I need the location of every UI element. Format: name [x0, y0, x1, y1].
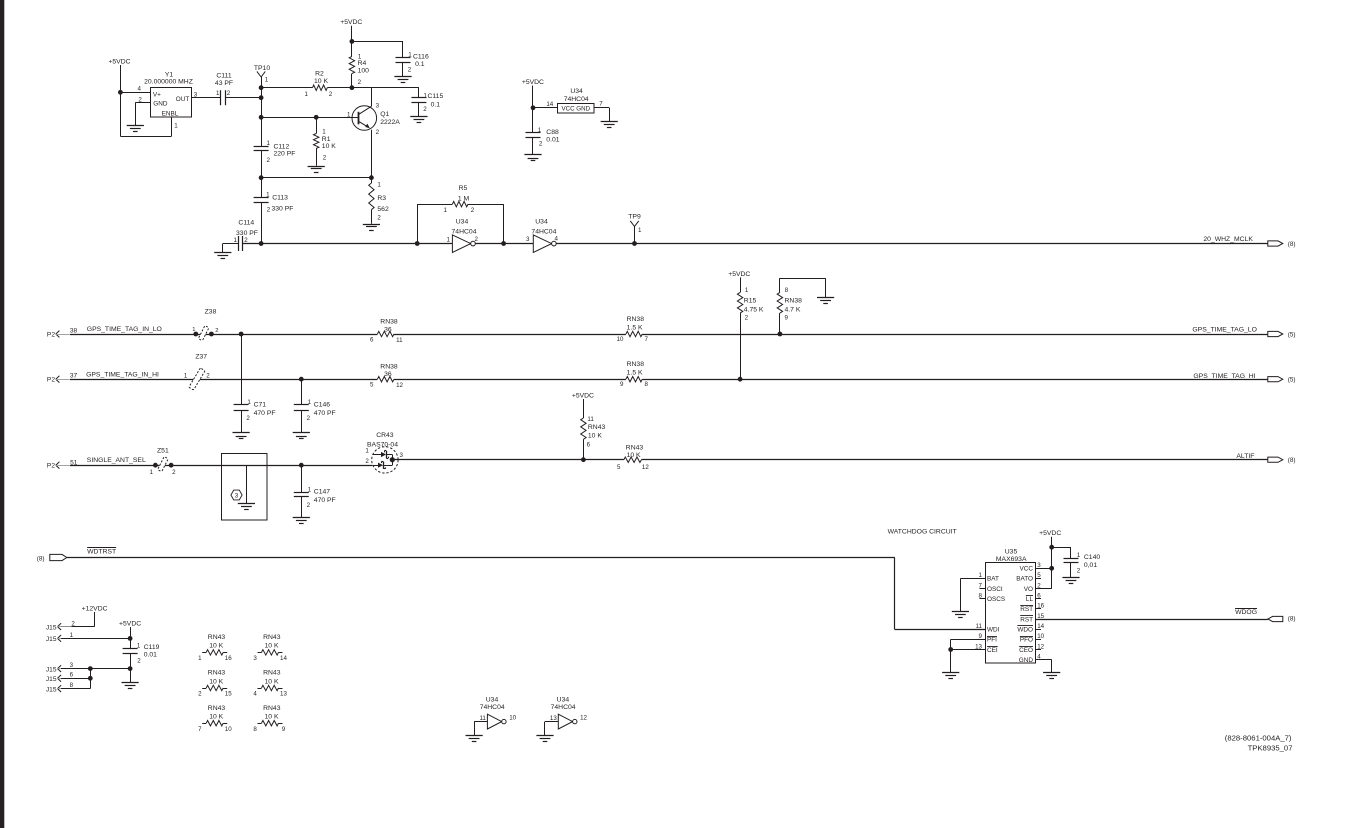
- svg-text:74HC04: 74HC04: [480, 704, 505, 711]
- svg-text:C146: C146: [314, 402, 330, 409]
- svg-text:220 PF: 220 PF: [274, 150, 296, 157]
- svg-text:ALTIF: ALTIF: [1236, 453, 1254, 460]
- svg-text:2: 2: [198, 691, 202, 698]
- svg-text:1: 1: [1077, 552, 1081, 559]
- svg-text:1: 1: [377, 182, 381, 189]
- svg-text:36: 36: [384, 371, 392, 378]
- svg-text:PFO: PFO: [1020, 637, 1033, 644]
- svg-text:C140: C140: [1084, 554, 1100, 561]
- svg-text:U34: U34: [535, 219, 548, 226]
- svg-text:3: 3: [235, 492, 239, 499]
- svg-text:+5VDC: +5VDC: [728, 271, 750, 278]
- svg-text:1: 1: [308, 487, 312, 494]
- svg-text:TP10: TP10: [254, 65, 270, 72]
- svg-text:WDOG: WDOG: [1235, 609, 1257, 616]
- svg-text:9: 9: [785, 315, 789, 322]
- svg-text:1: 1: [234, 237, 238, 244]
- svg-text:P2: P2: [47, 332, 55, 339]
- svg-text:2: 2: [267, 157, 271, 164]
- svg-text:1.5 K: 1.5 K: [627, 325, 643, 332]
- svg-text:OSCI: OSCI: [987, 586, 1003, 593]
- svg-text:2: 2: [307, 415, 311, 422]
- svg-text:13: 13: [550, 715, 557, 722]
- svg-text:14: 14: [546, 101, 553, 108]
- svg-text:10 K: 10 K: [265, 678, 279, 685]
- svg-text:1: 1: [745, 287, 749, 294]
- svg-text:RN38: RN38: [380, 319, 398, 326]
- svg-text:J15: J15: [46, 676, 57, 683]
- svg-text:U34: U34: [486, 696, 499, 703]
- svg-text:(5): (5): [1288, 377, 1296, 384]
- svg-text:2: 2: [377, 215, 381, 222]
- svg-text:C115: C115: [428, 93, 444, 100]
- svg-text:6: 6: [587, 441, 591, 448]
- svg-text:1: 1: [198, 655, 202, 662]
- svg-text:74HC04: 74HC04: [452, 229, 477, 236]
- svg-text:VCC GND: VCC GND: [562, 106, 591, 113]
- svg-text:10 K: 10 K: [265, 643, 279, 650]
- svg-text:15: 15: [1037, 613, 1044, 620]
- svg-text:2: 2: [365, 458, 369, 465]
- svg-text:10: 10: [617, 336, 624, 343]
- svg-text:RN43: RN43: [588, 424, 606, 431]
- svg-text:2: 2: [745, 315, 749, 322]
- svg-text:470 PF: 470 PF: [254, 410, 276, 417]
- svg-text:10 K: 10 K: [588, 433, 602, 440]
- svg-text:SINGLE_ANT_SEL: SINGLE_ANT_SEL: [87, 457, 146, 464]
- svg-text:0.01: 0.01: [546, 137, 559, 144]
- svg-text:R3: R3: [377, 195, 386, 202]
- svg-text:R5: R5: [459, 185, 468, 192]
- svg-text:470 PF: 470 PF: [314, 410, 336, 417]
- svg-text:74HC04: 74HC04: [531, 229, 556, 236]
- svg-text:Y1: Y1: [165, 72, 174, 79]
- svg-text:1: 1: [308, 399, 312, 406]
- svg-text:CR43: CR43: [376, 432, 394, 439]
- svg-text:0.1: 0.1: [415, 61, 425, 68]
- svg-text:12: 12: [642, 464, 649, 471]
- svg-text:20.000000 MHZ: 20.000000 MHZ: [144, 79, 193, 86]
- svg-text:1: 1: [538, 127, 542, 134]
- svg-text:LL: LL: [1026, 596, 1034, 603]
- svg-text:12: 12: [580, 715, 587, 722]
- svg-text:11: 11: [396, 337, 403, 344]
- svg-text:1: 1: [149, 469, 153, 476]
- svg-text:1: 1: [347, 111, 351, 118]
- svg-text:74HC04: 74HC04: [551, 704, 576, 711]
- svg-text:1: 1: [638, 227, 642, 234]
- svg-text:7: 7: [198, 726, 202, 733]
- svg-text:36: 36: [384, 326, 392, 333]
- svg-text:10 K: 10 K: [627, 452, 641, 459]
- svg-text:43 PF: 43 PF: [215, 80, 233, 87]
- svg-text:2: 2: [423, 106, 427, 113]
- svg-text:2: 2: [1077, 568, 1081, 575]
- svg-text:+5VDC: +5VDC: [572, 393, 594, 400]
- svg-text:P2: P2: [47, 463, 55, 470]
- svg-text:2: 2: [307, 502, 311, 509]
- svg-text:3: 3: [253, 655, 257, 662]
- svg-text:Z38: Z38: [205, 308, 217, 315]
- svg-text:3: 3: [400, 452, 404, 459]
- svg-text:RN38: RN38: [627, 316, 645, 323]
- svg-text:1: 1: [184, 373, 188, 380]
- svg-text:+5VDC: +5VDC: [522, 79, 544, 86]
- svg-text:1: 1: [137, 643, 141, 650]
- svg-text:C88: C88: [546, 129, 559, 136]
- svg-text:470 PF: 470 PF: [314, 497, 336, 504]
- svg-text:R15: R15: [744, 297, 757, 304]
- svg-text:8: 8: [785, 287, 789, 294]
- svg-text:PFI: PFI: [987, 637, 997, 644]
- svg-text:RN43: RN43: [208, 705, 226, 712]
- svg-text:C147: C147: [314, 489, 330, 496]
- svg-text:74HC04: 74HC04: [564, 96, 589, 103]
- svg-text:38: 38: [70, 328, 78, 335]
- svg-text:BAS70-04: BAS70-04: [367, 441, 398, 448]
- svg-text:GPS_TIME_TAG_IN_HI: GPS_TIME_TAG_IN_HI: [86, 371, 159, 378]
- svg-text:0.1: 0.1: [431, 102, 441, 109]
- svg-text:6: 6: [70, 672, 74, 679]
- svg-text:2: 2: [408, 66, 412, 73]
- svg-text:4.75 K: 4.75 K: [744, 307, 764, 314]
- svg-text:10: 10: [225, 726, 232, 733]
- svg-text:TPK8935_07: TPK8935_07: [1248, 743, 1293, 752]
- svg-text:13: 13: [280, 691, 287, 698]
- svg-text:J15: J15: [46, 624, 57, 631]
- svg-text:+5VDC: +5VDC: [108, 59, 130, 66]
- svg-text:10 K: 10 K: [314, 78, 328, 85]
- svg-text:+12VDC: +12VDC: [82, 606, 108, 613]
- svg-text:8: 8: [645, 381, 649, 388]
- svg-text:10 K: 10 K: [322, 143, 336, 150]
- svg-text:J15: J15: [46, 666, 57, 673]
- svg-text:U34: U34: [456, 219, 469, 226]
- svg-text:U34: U34: [570, 88, 583, 95]
- svg-text:GPS_TIME_TAG_LO: GPS_TIME_TAG_LO: [1192, 327, 1256, 334]
- svg-text:GPS_TIME_TAG_IN_LO: GPS_TIME_TAG_IN_LO: [87, 326, 162, 333]
- svg-text:(5): (5): [1288, 332, 1296, 339]
- svg-text:2: 2: [475, 236, 479, 243]
- svg-text:C119: C119: [144, 644, 160, 651]
- svg-text:BATO: BATO: [1016, 576, 1033, 583]
- svg-text:U35: U35: [1005, 549, 1018, 556]
- svg-text:C111: C111: [216, 73, 231, 80]
- svg-text:14: 14: [280, 655, 287, 662]
- svg-text:RN43: RN43: [626, 444, 644, 451]
- svg-text:9: 9: [620, 381, 624, 388]
- svg-text:2: 2: [215, 328, 218, 334]
- svg-text:2: 2: [172, 469, 176, 476]
- svg-text:10 K: 10 K: [265, 714, 279, 721]
- svg-text:1: 1: [70, 632, 74, 639]
- svg-text:U34: U34: [557, 696, 570, 703]
- svg-text:RN43: RN43: [263, 705, 281, 712]
- svg-text:8: 8: [70, 682, 74, 689]
- svg-text:RN38: RN38: [627, 361, 645, 368]
- svg-text:1: 1: [267, 140, 271, 147]
- svg-text:1: 1: [174, 123, 178, 130]
- svg-text:1: 1: [305, 91, 309, 98]
- svg-text:2: 2: [267, 207, 271, 214]
- svg-text:15: 15: [225, 691, 232, 698]
- svg-text:GND: GND: [153, 101, 168, 108]
- svg-text:R2: R2: [315, 71, 324, 78]
- svg-text:330 PF: 330 PF: [236, 230, 258, 237]
- svg-text:2: 2: [471, 207, 475, 214]
- svg-text:R1: R1: [322, 136, 331, 143]
- svg-text:(8): (8): [1288, 241, 1296, 248]
- svg-text:RN43: RN43: [263, 634, 281, 641]
- svg-text:1: 1: [365, 448, 369, 455]
- svg-text:R4: R4: [358, 60, 367, 67]
- svg-text:2: 2: [71, 620, 75, 627]
- svg-text:20_WHZ_MCLK: 20_WHZ_MCLK: [1203, 236, 1253, 243]
- svg-text:10 K: 10 K: [209, 714, 223, 721]
- svg-text:2: 2: [539, 140, 543, 147]
- svg-text:RN43: RN43: [208, 634, 226, 641]
- svg-text:1: 1: [266, 191, 270, 198]
- svg-text:2: 2: [323, 154, 327, 161]
- svg-text:1: 1: [216, 90, 220, 97]
- svg-text:J15: J15: [46, 636, 57, 643]
- svg-text:RN38: RN38: [380, 364, 398, 371]
- svg-text:(8): (8): [1288, 457, 1296, 464]
- svg-text:VO: VO: [1024, 586, 1033, 593]
- svg-text:3: 3: [526, 236, 530, 243]
- svg-text:4: 4: [555, 235, 559, 242]
- svg-text:0.01: 0.01: [144, 652, 157, 659]
- svg-text:6: 6: [370, 336, 374, 343]
- svg-text:ENBL: ENBL: [162, 111, 179, 118]
- svg-text:1 M: 1 M: [458, 195, 470, 202]
- svg-text:(8): (8): [1288, 616, 1296, 623]
- svg-text:RN43: RN43: [263, 670, 281, 677]
- svg-text:16: 16: [225, 655, 232, 662]
- svg-text:2: 2: [358, 79, 362, 86]
- svg-text:OSCS: OSCS: [987, 596, 1005, 603]
- svg-text:562: 562: [377, 206, 389, 213]
- svg-text:10 K: 10 K: [209, 643, 223, 650]
- svg-text:14: 14: [1037, 623, 1044, 630]
- svg-text:Z37: Z37: [195, 354, 207, 361]
- svg-text:5: 5: [617, 464, 621, 471]
- svg-text:RN43: RN43: [208, 670, 226, 677]
- svg-text:RST: RST: [1020, 616, 1033, 623]
- svg-text:V+: V+: [153, 91, 161, 98]
- svg-text:1.5 K: 1.5 K: [627, 370, 643, 377]
- svg-text:7: 7: [599, 101, 603, 108]
- svg-text:11: 11: [587, 416, 594, 423]
- svg-text:(828-8061-004A_7): (828-8061-004A_7): [1225, 733, 1292, 742]
- svg-text:WDO: WDO: [1017, 627, 1033, 634]
- svg-text:C113: C113: [272, 194, 288, 201]
- svg-text:WATCHDOG CIRCUIT: WATCHDOG CIRCUIT: [888, 529, 957, 536]
- svg-text:OUT: OUT: [176, 96, 190, 103]
- svg-text:10 K: 10 K: [209, 678, 223, 685]
- svg-text:C114: C114: [238, 220, 254, 227]
- svg-text:7: 7: [645, 336, 649, 343]
- svg-text:2: 2: [246, 415, 250, 422]
- svg-text:37: 37: [70, 373, 78, 380]
- svg-text:4: 4: [253, 691, 257, 698]
- svg-text:1: 1: [265, 76, 269, 83]
- svg-text:330 PF: 330 PF: [272, 205, 294, 212]
- svg-text:VCC: VCC: [1020, 566, 1034, 573]
- svg-text:WDI: WDI: [987, 627, 1000, 634]
- svg-text:2: 2: [206, 373, 210, 380]
- svg-text:2: 2: [227, 90, 231, 97]
- svg-text:RN38: RN38: [785, 297, 803, 304]
- svg-text:CEI: CEI: [987, 647, 998, 654]
- svg-text:0,01: 0,01: [1084, 562, 1097, 569]
- svg-text:GND: GND: [1019, 657, 1034, 664]
- svg-text:5: 5: [370, 382, 374, 389]
- svg-text:2: 2: [329, 91, 333, 98]
- svg-text:2: 2: [137, 657, 141, 664]
- svg-text:1: 1: [247, 399, 251, 406]
- svg-text:1: 1: [444, 207, 448, 214]
- svg-text:12: 12: [396, 382, 403, 389]
- svg-text:11: 11: [976, 623, 983, 630]
- svg-text:1: 1: [322, 129, 326, 136]
- svg-text:1: 1: [192, 327, 195, 333]
- svg-text:11: 11: [479, 715, 486, 722]
- svg-text:2: 2: [376, 129, 380, 136]
- svg-text:P2: P2: [47, 377, 55, 384]
- svg-text:BAT: BAT: [987, 576, 999, 583]
- svg-text:3: 3: [70, 662, 74, 669]
- svg-text:1: 1: [408, 52, 412, 59]
- svg-text:+5VDC: +5VDC: [340, 19, 362, 26]
- svg-text:+5VDC: +5VDC: [1039, 530, 1061, 537]
- svg-text:100: 100: [358, 67, 370, 74]
- svg-text:TP9: TP9: [628, 213, 641, 220]
- svg-text:10: 10: [509, 715, 516, 722]
- svg-text:WDTRST: WDTRST: [87, 548, 116, 555]
- svg-text:1: 1: [447, 237, 451, 244]
- svg-text:8: 8: [253, 726, 257, 733]
- svg-text:Q1: Q1: [380, 111, 389, 118]
- svg-text:J15: J15: [46, 686, 57, 693]
- svg-text:3: 3: [376, 102, 380, 109]
- svg-text:4: 4: [138, 86, 142, 93]
- svg-text:CEO: CEO: [1019, 647, 1033, 654]
- svg-text:(8): (8): [37, 556, 45, 563]
- svg-text:MAX693A: MAX693A: [996, 556, 1027, 563]
- svg-text:4.7 K: 4.7 K: [785, 307, 801, 314]
- svg-text:2222A: 2222A: [380, 119, 400, 126]
- svg-text:GPS_TIME_TAG_HI: GPS_TIME_TAG_HI: [1193, 373, 1255, 380]
- svg-text:C71: C71: [254, 402, 267, 409]
- svg-text:RST: RST: [1020, 606, 1033, 613]
- svg-text:Z51: Z51: [157, 448, 169, 455]
- svg-text:9: 9: [282, 726, 286, 733]
- svg-text:C116: C116: [413, 54, 429, 61]
- svg-text:+5VDC: +5VDC: [119, 621, 141, 628]
